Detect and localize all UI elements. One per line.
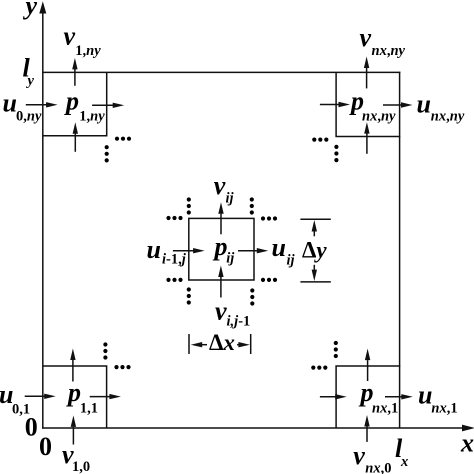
svg-text:v: v xyxy=(215,297,227,326)
arrow v_1,1 xyxy=(70,349,75,382)
svg-text:1,ny: 1,ny xyxy=(79,108,105,124)
svg-text:ij: ij xyxy=(287,253,296,269)
svg-text:y: y xyxy=(26,73,35,89)
dots left of cell p_nx,ny xyxy=(312,138,328,142)
dots above cell p_nx,1 xyxy=(334,341,338,358)
svg-text:v: v xyxy=(353,441,365,470)
dx dimension left cap xyxy=(188,334,190,354)
svg-text:1,ny: 1,ny xyxy=(75,43,101,59)
svg-text:nx,ny: nx,ny xyxy=(372,43,406,59)
svg-text:nx,1: nx,1 xyxy=(372,401,398,417)
svg-text:v: v xyxy=(64,21,76,50)
arrow v_nx,1 xyxy=(365,349,370,381)
arrow v_nx,ny-1 xyxy=(364,122,369,154)
svg-text:0,ny: 0,ny xyxy=(16,109,42,125)
arrow u_i-1,j xyxy=(173,248,205,253)
dots above cell p_1,1 xyxy=(103,342,107,359)
arrow u_0,ny xyxy=(26,102,58,107)
svg-text:u: u xyxy=(147,235,161,264)
arrow u_1,ny xyxy=(92,103,124,108)
cell p_ij box xyxy=(189,218,254,280)
arrow u_1,1 xyxy=(90,394,121,399)
svg-text:nx,ny: nx,ny xyxy=(362,109,396,125)
dx left arrow xyxy=(191,342,207,347)
x-axis xyxy=(42,425,474,432)
svg-text:p: p xyxy=(66,378,81,407)
dots below-left of cell p_ij xyxy=(166,278,191,305)
arrow v_1,ny-1 xyxy=(73,122,78,152)
svg-text:i-1,j: i-1,j xyxy=(162,252,187,268)
arrow u_ij xyxy=(238,248,268,253)
dots above-left of cell p_ij xyxy=(166,197,191,220)
svg-text:u: u xyxy=(417,89,431,118)
svg-text:u: u xyxy=(272,233,286,262)
svg-text:x: x xyxy=(400,454,408,470)
svg-text:ij: ij xyxy=(226,251,235,267)
svg-text:nx,0: nx,0 xyxy=(365,461,391,474)
dots left of cell p_nx,1 xyxy=(311,366,327,370)
dots right of cell p_1,1 xyxy=(114,365,130,369)
svg-text:y: y xyxy=(23,0,38,20)
dots below-right of cell p_ij xyxy=(250,278,277,306)
svg-text:i,j-1: i,j-1 xyxy=(227,314,251,330)
domain right boundary wire xyxy=(399,72,401,428)
dy up arrow xyxy=(312,220,317,236)
svg-text:1,0: 1,0 xyxy=(72,459,90,474)
svg-text:p: p xyxy=(64,87,79,116)
dy down arrow xyxy=(312,265,317,281)
dx dimension right cap xyxy=(250,334,252,354)
svg-text:0: 0 xyxy=(39,432,52,461)
arrow u_0,1 xyxy=(25,394,56,399)
arrow u_nx,ny xyxy=(383,102,413,107)
svg-text:Δy: Δy xyxy=(302,237,327,262)
svg-text:v: v xyxy=(214,171,226,200)
svg-text:0: 0 xyxy=(25,412,38,441)
dots right of cell p_1,ny xyxy=(115,137,131,141)
arrow v_ij xyxy=(218,202,223,234)
svg-text:x: x xyxy=(460,428,474,457)
arrow v_1,ny xyxy=(72,58,77,86)
y-axis xyxy=(39,1,46,429)
arrow u_nx-1,1 xyxy=(320,394,347,399)
svg-text:nx,ny: nx,ny xyxy=(431,109,465,125)
svg-text:v: v xyxy=(360,23,372,52)
dy dimension top cap xyxy=(300,218,330,220)
dx right arrow xyxy=(237,342,250,347)
svg-text:u: u xyxy=(3,88,17,117)
cell p_nx,ny box xyxy=(336,72,400,136)
arrow u_nx,1 xyxy=(385,394,413,399)
dots below cell p_nx,ny xyxy=(334,145,338,162)
svg-text:Δx: Δx xyxy=(209,330,235,355)
svg-text:u: u xyxy=(418,380,432,409)
arrow v_i,j-1 xyxy=(218,266,223,298)
arrow v_nx,ny xyxy=(364,57,369,89)
svg-text:1,1: 1,1 xyxy=(80,400,98,416)
svg-text:ij: ij xyxy=(226,191,235,207)
svg-text:nx,1: nx,1 xyxy=(431,400,457,416)
arrow v_nx,0 xyxy=(364,415,369,442)
domain top boundary wire xyxy=(42,71,400,73)
arrow u_nx-1,ny xyxy=(320,102,350,107)
cell p_1,ny box xyxy=(43,72,107,135)
arrow v_1,0 xyxy=(71,415,76,444)
dots below cell p_1,ny xyxy=(105,145,109,162)
cell p_nx,1 box xyxy=(336,366,400,428)
cell p_1,1 box xyxy=(43,366,107,428)
dy dimension bottom cap xyxy=(300,281,330,283)
dots above-right of cell p_ij xyxy=(250,197,277,220)
